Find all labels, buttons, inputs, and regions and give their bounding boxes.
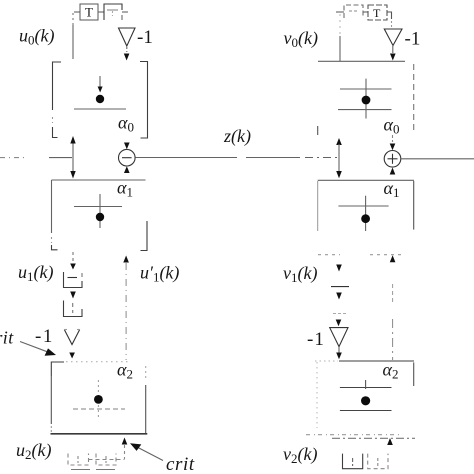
svg-text:-1: -1 bbox=[405, 29, 421, 50]
svg-text:α1: α1 bbox=[384, 178, 400, 200]
svg-text:u′1(k): u′1(k) bbox=[140, 263, 179, 285]
svg-text:α0: α0 bbox=[118, 113, 134, 135]
svg-text:T: T bbox=[85, 5, 93, 20]
svg-text:T: T bbox=[373, 6, 381, 20]
svg-text:-1: -1 bbox=[137, 27, 153, 48]
svg-text:u2(k): u2(k) bbox=[16, 440, 51, 462]
svg-text:α2: α2 bbox=[383, 360, 399, 382]
svg-text:-1: -1 bbox=[35, 326, 54, 347]
svg-text:α2: α2 bbox=[117, 360, 133, 382]
svg-text:v2(k): v2(k) bbox=[283, 444, 317, 466]
svg-text:u0(k): u0(k) bbox=[19, 26, 54, 48]
svg-text:-1: -1 bbox=[307, 329, 325, 350]
svg-text:crit: crit bbox=[166, 454, 195, 474]
svg-text:z(k): z(k) bbox=[223, 126, 251, 147]
svg-text:u1(k): u1(k) bbox=[18, 262, 53, 284]
svg-text:v0(k): v0(k) bbox=[284, 28, 318, 50]
svg-text:α1: α1 bbox=[117, 178, 133, 200]
svg-text:v1(k): v1(k) bbox=[283, 263, 317, 285]
svg-text:crit: crit bbox=[0, 328, 14, 348]
svg-text:α0: α0 bbox=[384, 115, 400, 137]
